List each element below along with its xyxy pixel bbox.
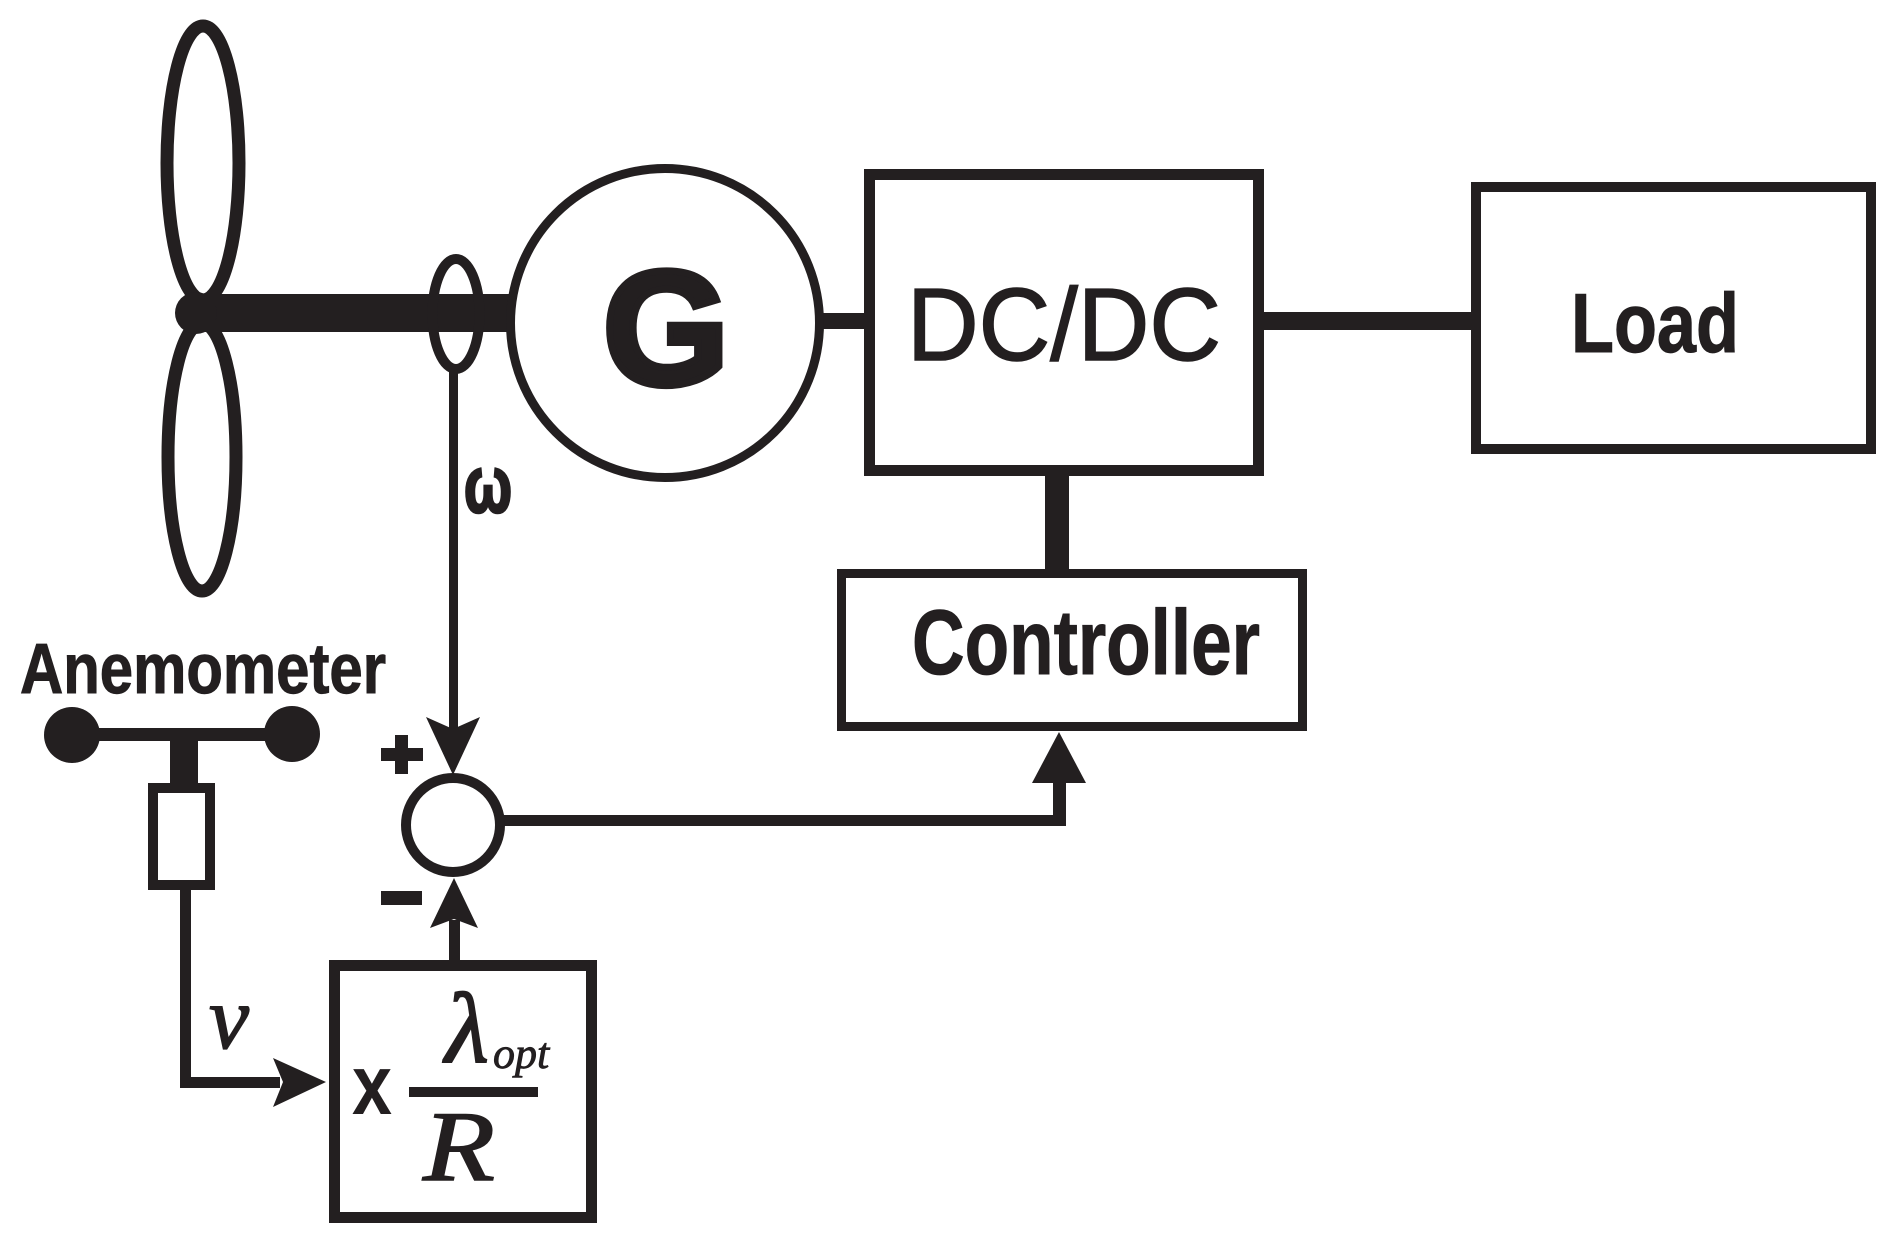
svg-text:Controller: Controller [912,592,1260,694]
anemometer wire vertical [180,888,191,1088]
shaft [186,294,512,332]
speed sensor ellipse [433,259,480,369]
svg-text:v: v [209,969,249,1068]
svg-text:Load: Load [1571,276,1739,370]
feedback wire horizontal [500,815,1060,826]
wire lambda box to summing junction [449,920,460,962]
anemometer left cup [44,707,100,763]
arrowhead into lambda box [273,1058,326,1107]
anemometer stem [170,735,198,786]
wire shaft to DC/DC [818,313,870,329]
omega wire [449,369,458,732]
svg-text:λ: λ [442,973,488,1084]
Controller box [842,574,1303,727]
wire DC/DC to Controller [1045,470,1069,575]
rotor hub [175,292,217,334]
plus sign [381,748,423,761]
anemometer wire horizontal [180,1077,280,1088]
wire DC/DC to Load [1258,312,1477,330]
turbine blade bottom [168,323,236,591]
svg-text:Anemometer: Anemometer [20,630,386,709]
turbine blade top [167,26,239,300]
arrowhead into summing junction bottom [430,878,478,928]
minus sign [381,891,422,905]
anemometer right cup [264,706,320,762]
svg-text:G: G [603,238,729,419]
generator circle [511,169,820,478]
lambda box [335,966,592,1218]
svg-text:DC/DC: DC/DC [907,267,1221,382]
arrowhead into summing junction top [426,717,480,775]
svg-text:R: R [422,1091,495,1202]
anemometer crossbar [72,728,292,741]
opt subscript [494,1043,550,1077]
DC/DC box [870,175,1259,471]
summing junction [406,778,500,872]
Load box [1476,187,1871,449]
fraction bar [409,1087,538,1097]
svg-text:ω: ω [464,440,512,529]
svg-text:x: x [352,1038,392,1133]
feedback wire vertical stem [1053,779,1066,826]
anemometer body [153,788,210,885]
arrowhead into Controller [1032,732,1086,783]
